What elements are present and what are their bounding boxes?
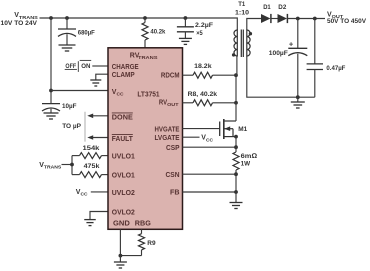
svg-text:CSN: CSN (166, 172, 180, 179)
resistor 154k (UVLO1) (72, 145, 108, 159)
inductor T1 secondary winding (247, 30, 250, 57)
svg-text:HVGATE: HVGATE (155, 126, 180, 133)
node TO uP label (62, 123, 81, 130)
ground below 680uF (59, 45, 76, 51)
node VCC label at UVLO2 (76, 189, 88, 198)
node junction top rail to VCC rail (49, 16, 53, 20)
node junction GND (119, 254, 123, 258)
ground at CLAMP (90, 80, 101, 86)
node VTRANS tap label (39, 162, 62, 171)
capacitor 680uF (58, 18, 95, 45)
svg-text:FB: FB (170, 190, 180, 197)
wire VTRANS tap (62, 164, 73, 166)
wire T1 core (241, 30, 243, 58)
wire D2 to VOUT (287, 18, 325, 20)
svg-text:+: + (289, 39, 294, 48)
wire CSN to FB rail (235, 174, 237, 192)
svg-text:TRANS: TRANS (138, 55, 158, 61)
wire FAULT arrow to uP (87, 135, 108, 140)
svg-text:RBG: RBG (135, 221, 152, 228)
node junction top rail 680uF (65, 16, 69, 20)
resistor R8 40.2k (RVOUT) (183, 91, 237, 106)
svg-text:LVGATE: LVGATE (155, 135, 180, 142)
node junction RVOUT rail (234, 101, 238, 105)
svg-text:×5: ×5 (196, 30, 203, 37)
resistor 40.2k (RVtrans) (142, 18, 166, 48)
node VCC label at LVGATE (201, 135, 213, 144)
capacitor 100uF (269, 19, 308, 98)
capacitor 10uF (42, 103, 77, 113)
svg-text:OFF: OFF (65, 63, 76, 70)
svg-text:RDCM: RDCM (161, 73, 180, 80)
pin label OVLO1 (112, 173, 135, 180)
svg-text:UVLO1: UVLO1 (112, 154, 135, 161)
wire D1 to D2 (271, 18, 278, 20)
svg-text:18.2k: 18.2k (194, 63, 212, 70)
svg-text:GND: GND (113, 221, 130, 228)
svg-text:OVLO1: OVLO1 (112, 173, 135, 180)
wire UVLO1-OVLO1 left rail (71, 156, 73, 175)
pin label OVLO2 (112, 209, 135, 216)
node TO uP bracket (84, 112, 86, 142)
svg-text:10µF: 10µF (62, 103, 77, 110)
resistor R9 (RBG) (139, 229, 156, 255)
pin label RBG (135, 221, 152, 228)
ground main GND (114, 256, 127, 268)
wire secondary top lead (247, 19, 261, 31)
transformer T1 labels (235, 1, 249, 17)
pin label CHARGE (112, 64, 139, 71)
wire transformer primary to drain rail (235, 56, 238, 121)
pin label UVLO2 (112, 190, 135, 197)
ground output (291, 97, 305, 108)
capacitor 0.47uF (307, 19, 346, 98)
svg-text:TRANS: TRANS (44, 164, 62, 170)
svg-text:2.2µF: 2.2µF (195, 22, 213, 29)
wire M1 source to CSP (235, 137, 237, 148)
svg-text:680µF: 680µF (78, 29, 95, 36)
diode D1 (261, 4, 271, 23)
svg-text:UVLO2: UVLO2 (112, 190, 135, 197)
svg-text:154k: 154k (83, 145, 100, 152)
svg-text:CC: CC (116, 92, 123, 98)
svg-text:M1: M1 (238, 126, 247, 133)
svg-text:R8, 40.2k: R8, 40.2k (188, 91, 218, 98)
node junction top rail 2.2uF (184, 16, 188, 20)
node junction 0.47uF top (313, 17, 317, 21)
node junction M1 source (234, 135, 238, 139)
svg-text:0.47µF: 0.47µF (326, 65, 345, 72)
pin label VCC (112, 89, 124, 98)
node junction VCC pin (49, 89, 53, 93)
wire output bottom rail (298, 96, 315, 98)
pin label LT3751 (137, 92, 159, 99)
wire top VTRANS rail (40, 18, 238, 30)
svg-text:D2: D2 (278, 4, 286, 11)
wire left VCC rail (50, 18, 52, 104)
svg-text:CC: CC (206, 137, 213, 143)
svg-text:TO µP: TO µP (62, 123, 81, 130)
diode D2 (278, 4, 288, 23)
wire R9 to GND junction (120, 255, 141, 257)
resistor 475k (OVLO1) (72, 163, 108, 178)
resistor 18.2k (RDCM) (183, 63, 237, 78)
node junction bottom rail (296, 95, 300, 99)
pin label UVLO1 (112, 154, 135, 161)
pin label RVTRANS (130, 53, 159, 62)
pin label HVGATE (155, 126, 180, 133)
wire VCC pin to rail (51, 90, 108, 92)
node junction top rail 40.2k (143, 16, 147, 20)
wire secondary bottom lead (247, 56, 298, 97)
svg-text:CHARGE: CHARGE (112, 64, 139, 71)
pin label CSP (166, 145, 180, 152)
switch OFF/ON label (65, 60, 92, 72)
svg-text:LT3751: LT3751 (137, 92, 159, 99)
svg-text:40.2k: 40.2k (150, 29, 165, 36)
ground at OVLO2 (84, 220, 96, 226)
svg-text:T1: T1 (238, 1, 245, 8)
node junction CSP (234, 145, 238, 149)
svg-text:OVLO2: OVLO2 (112, 209, 135, 216)
pin label DONE (112, 113, 133, 122)
node phase dot secondary (249, 32, 252, 35)
ground below 10uF (44, 113, 59, 119)
svg-text:RV: RV (159, 100, 167, 107)
svg-text:6mΩ: 6mΩ (241, 153, 258, 160)
node junction RDCM rail (234, 73, 238, 77)
IC U1 LT3751 body (108, 48, 183, 230)
wire GND pin down (119, 229, 121, 255)
svg-text:D1: D1 (263, 4, 271, 11)
wire VCC to UVLO2 (91, 191, 108, 193)
svg-text:CC: CC (80, 192, 87, 198)
node VOUT label (327, 12, 366, 25)
node VTRANS input label (1, 12, 39, 27)
svg-text:OUT: OUT (167, 102, 178, 108)
node phase dot primary (232, 53, 235, 56)
wire OVLO2 to ground (90, 212, 108, 220)
svg-text:FAULT: FAULT (112, 136, 134, 143)
svg-text:1:10: 1:10 (235, 9, 249, 16)
svg-text:CLAMP: CLAMP (112, 72, 135, 79)
wire ON to CHARGE pin (92, 65, 108, 67)
pin label RDCM (161, 73, 180, 80)
wire HVGATE to gate (183, 128, 220, 130)
pin label LVGATE (155, 135, 180, 142)
svg-text:50V TO 450V: 50V TO 450V (327, 19, 366, 25)
svg-text:DONE: DONE (112, 115, 133, 122)
ground below 2.2uF (179, 38, 192, 44)
svg-text:10V TO 24V: 10V TO 24V (1, 20, 38, 27)
capacitor 2.2uF x5 (177, 18, 213, 38)
node junction VTRANS tap (70, 163, 74, 167)
pin label GND (113, 221, 130, 228)
wire CSN to rail (183, 173, 237, 175)
resistor 6mOhm sense (233, 147, 257, 174)
svg-text:475k: 475k (84, 163, 100, 170)
wire FB junction to ground (235, 192, 237, 203)
svg-text:1W: 1W (241, 160, 251, 167)
svg-text:CSP: CSP (166, 145, 180, 152)
pin label FB (170, 190, 180, 197)
ground below sense resistor (230, 203, 243, 209)
transistor M1 NMOS (220, 119, 248, 139)
pin label FAULT (112, 135, 134, 144)
svg-text:ON: ON (81, 63, 90, 70)
inductor T1 primary winding (234, 30, 237, 57)
node junction 100uF top (296, 17, 300, 21)
wire FB to rail (183, 191, 237, 193)
pin label CSN (166, 172, 180, 179)
svg-text:R9: R9 (147, 240, 155, 247)
node junction FB (234, 190, 238, 194)
wire LVGATE stub (183, 136, 200, 138)
pin label RVOUT (159, 100, 179, 109)
node junction CSN (234, 172, 238, 176)
pin label CLAMP (112, 72, 135, 79)
wire CLAMP to ground (96, 74, 108, 80)
wire DONE arrow to uP (87, 114, 108, 119)
svg-text:100µF: 100µF (269, 50, 288, 57)
wire CSP to rail (183, 146, 237, 148)
